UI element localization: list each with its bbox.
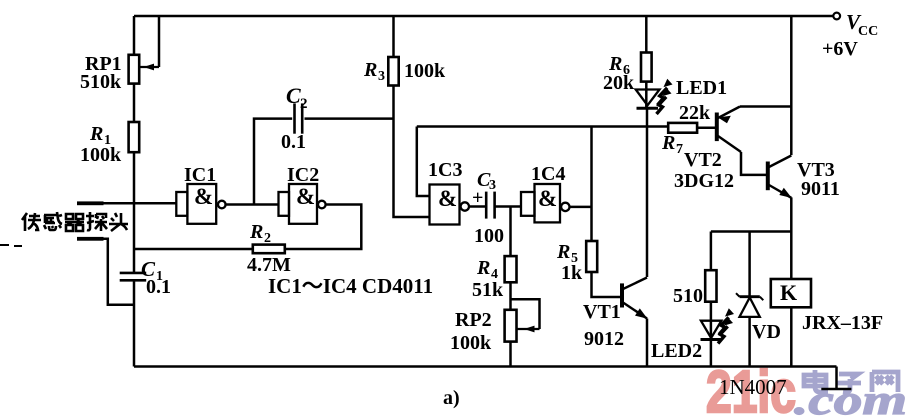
svg-text:LED2: LED2 [651, 340, 702, 362]
svg-text:3: 3 [378, 69, 385, 84]
svg-text:R: R [89, 123, 103, 145]
svg-text:a): a) [443, 387, 460, 409]
svg-text:1C3: 1C3 [428, 159, 462, 181]
svg-text:510k: 510k [80, 71, 122, 93]
svg-text:C: C [286, 83, 301, 108]
svg-text:VD: VD [752, 321, 781, 343]
svg-text:K: K [780, 280, 797, 305]
svg-text:+6V: +6V [822, 38, 858, 60]
svg-text:22k: 22k [679, 102, 711, 124]
svg-text:R: R [661, 132, 675, 154]
svg-text:R: R [556, 241, 570, 263]
svg-text:&: & [194, 184, 213, 209]
svg-text:4.7M: 4.7M [247, 254, 291, 276]
svg-text:IC1～IC4 CD4011: IC1～IC4 CD4011 [268, 274, 433, 298]
svg-text:2: 2 [264, 231, 271, 246]
svg-text:9011: 9011 [801, 178, 840, 200]
svg-text:R: R [363, 59, 377, 81]
svg-text:510: 510 [673, 285, 703, 307]
svg-text:CC: CC [858, 24, 878, 39]
svg-text:7: 7 [676, 142, 683, 157]
svg-text:100k: 100k [450, 332, 492, 354]
svg-text:VT1: VT1 [583, 301, 621, 323]
svg-text:51k: 51k [472, 279, 504, 301]
svg-text:100k: 100k [404, 60, 446, 82]
svg-text:VT2: VT2 [684, 149, 722, 171]
svg-text:&: & [538, 186, 557, 211]
svg-text:100k: 100k [80, 144, 122, 166]
svg-text:IC1: IC1 [184, 164, 216, 186]
svg-text:+: + [472, 187, 483, 209]
svg-text:0.1: 0.1 [146, 276, 171, 298]
svg-text:LED1: LED1 [676, 77, 727, 99]
svg-text:3: 3 [489, 178, 496, 193]
svg-text:R: R [249, 221, 263, 243]
svg-text:0.1: 0.1 [281, 131, 306, 153]
svg-text:1k: 1k [561, 262, 583, 284]
svg-text:&: & [296, 184, 315, 209]
svg-text:3DG12: 3DG12 [674, 170, 734, 192]
svg-text:2: 2 [300, 96, 308, 112]
svg-text:R: R [476, 257, 490, 279]
svg-text:RP2: RP2 [455, 309, 492, 331]
svg-text:JRX–13F: JRX–13F [802, 312, 883, 334]
svg-text:1C4: 1C4 [531, 163, 565, 185]
svg-text:20k: 20k [603, 72, 635, 94]
svg-text:&: & [438, 186, 457, 211]
svg-text:1N4007: 1N4007 [719, 375, 787, 399]
svg-text:100: 100 [474, 225, 504, 247]
svg-text:9012: 9012 [584, 328, 624, 350]
svg-text:IC2: IC2 [287, 164, 319, 186]
